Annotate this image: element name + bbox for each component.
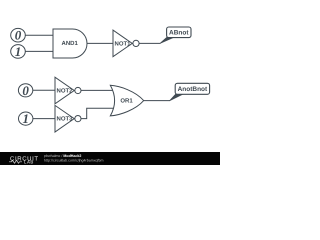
or gate OR1 (110, 85, 143, 116)
wire NOT3 output jog to OR1 (81, 108, 114, 118)
svg-text:OR1: OR1 (120, 98, 133, 105)
flag box ABnot (167, 27, 191, 38)
bubble NOT2 (75, 87, 81, 93)
svg-text:1: 1 (15, 44, 22, 59)
flag box AnotBnot (175, 83, 209, 94)
wire input1 to AND1 (25, 50, 53, 52)
footer bar (0, 152, 220, 165)
wire input0 to AND1 (25, 34, 53, 36)
input terminal 1 (top section) (11, 45, 26, 59)
wire AND1 output to NOT1 (87, 42, 113, 44)
bubble NOT3 (75, 116, 81, 122)
wire input1b to NOT3 (33, 118, 55, 120)
wire input0b to NOT2 (33, 89, 55, 91)
svg-text:NOT3: NOT3 (56, 116, 73, 123)
svg-text:AND1: AND1 (62, 40, 79, 47)
svg-text:0: 0 (15, 28, 22, 43)
logo resistor zigzag (9, 160, 22, 163)
input terminal 0 (top section) (11, 28, 26, 42)
input terminal 0 (bottom section) (18, 84, 32, 97)
flag pointer ABnot (160, 37, 173, 43)
bubble NOT1 (133, 40, 139, 46)
svg-text:AnotBnot: AnotBnot (178, 86, 208, 93)
wire NOT1 output to ABnot flag (139, 42, 160, 44)
flag pointer AnotBnot (170, 94, 183, 100)
and gate AND1 (53, 29, 87, 58)
svg-text:ABnot: ABnot (169, 30, 189, 37)
wire OR1 output to AnotBnot flag (144, 100, 170, 102)
svg-text:http://circuitlab.com/c/jhg4rb: http://circuitlab.com/c/jhg4rbamxqf5m (44, 158, 104, 162)
inverter NOT3 (55, 105, 74, 132)
svg-text:LAB: LAB (24, 160, 34, 165)
inverter NOT2 (55, 77, 74, 104)
wire NOT2 output to OR1 (81, 89, 114, 91)
inverter NOT1 (113, 30, 132, 57)
svg-text:0: 0 (22, 83, 29, 98)
svg-text:NOT2: NOT2 (56, 88, 73, 95)
input terminal 1 (bottom section) (19, 112, 33, 125)
svg-text:1: 1 (22, 111, 29, 126)
svg-text:NOT1: NOT1 (114, 41, 131, 48)
